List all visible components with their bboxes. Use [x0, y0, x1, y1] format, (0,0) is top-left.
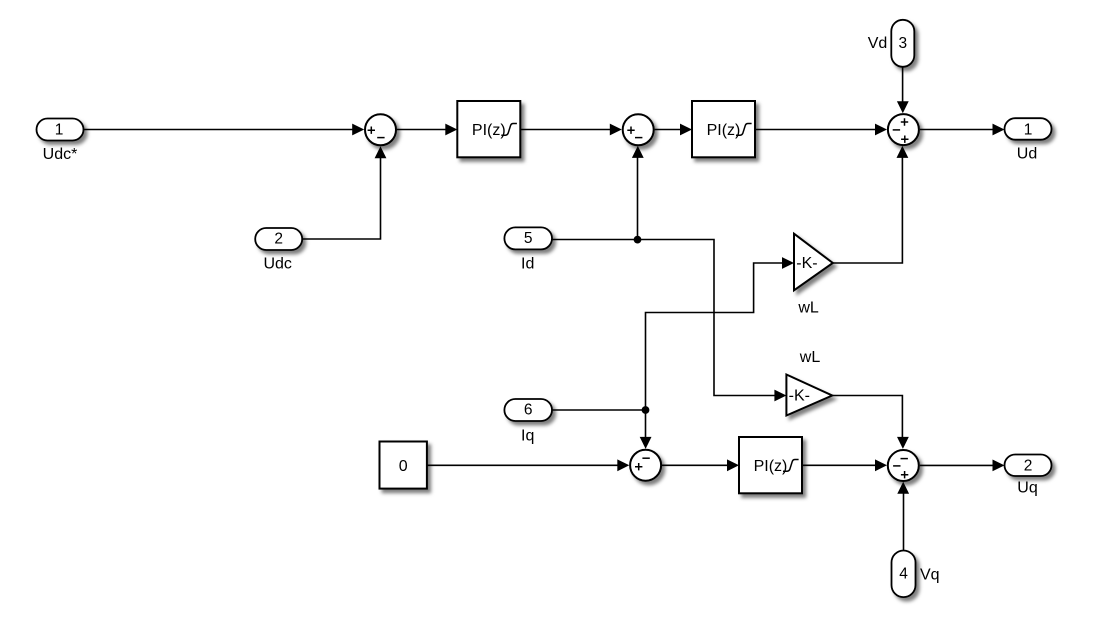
- wire Vd to sum3: [897, 67, 909, 113]
- svg-text:wL: wL: [797, 300, 819, 317]
- inport 4 (Vq): [892, 551, 940, 598]
- PI controller PI2: [692, 101, 755, 157]
- PI controller PI1: [457, 101, 520, 157]
- svg-text:6: 6: [524, 402, 533, 419]
- svg-text:0: 0: [399, 458, 408, 475]
- junction dot Id: [634, 236, 642, 244]
- sum junction S4: [630, 450, 661, 481]
- wire constant to sum4: [427, 459, 629, 471]
- svg-text:PI(z): PI(z): [754, 458, 788, 475]
- wire Id main to gain2: [552, 240, 786, 402]
- wire port2 to sum1: [303, 146, 387, 239]
- PI controller PI3: [739, 437, 802, 493]
- wire sum4 to PI3: [661, 459, 739, 471]
- wire Vq to sum5: [897, 482, 909, 551]
- wire PI2 to sum3: [755, 124, 887, 136]
- svg-text:wL: wL: [799, 349, 821, 366]
- sum junction S3: [888, 114, 919, 145]
- outport 1 (Ud): [1005, 118, 1052, 162]
- wire sum1 to PI1: [397, 124, 457, 136]
- inport 5 (Id): [504, 227, 552, 272]
- wire PI1 to sum2: [520, 124, 622, 136]
- svg-text:2: 2: [1024, 458, 1033, 475]
- inport 1 (Udc*): [37, 119, 84, 163]
- svg-text:PI(z): PI(z): [707, 122, 741, 139]
- svg-text:Ud: Ud: [1017, 146, 1037, 163]
- wire gain1 to sum3: [833, 146, 909, 263]
- svg-text:4: 4: [899, 566, 908, 583]
- junction dot Iq: [642, 406, 650, 414]
- gain G2 (wL lower): [786, 349, 832, 416]
- svg-text:Id: Id: [521, 256, 534, 273]
- svg-text:Vq: Vq: [920, 567, 940, 584]
- gain G1 (wL upper): [794, 234, 833, 317]
- wire sum3 to outport 1: [920, 124, 1005, 136]
- svg-text:1: 1: [55, 121, 64, 138]
- wire Iq branch to gain1: [646, 257, 795, 410]
- sum junction S2: [623, 114, 654, 145]
- wire gain2 to sum5: [832, 396, 909, 449]
- svg-text:Udc*: Udc*: [43, 146, 78, 163]
- svg-text:5: 5: [524, 230, 533, 247]
- svg-text:Udc: Udc: [263, 255, 291, 272]
- svg-text:Uq: Uq: [1017, 480, 1037, 497]
- wire sum2 to PI2: [655, 124, 692, 136]
- svg-text:1: 1: [1024, 121, 1033, 138]
- svg-text:PI(z): PI(z): [472, 122, 506, 139]
- inport 2 (Udc): [255, 228, 302, 272]
- outport 2 (Uq): [1005, 455, 1052, 497]
- wire sum5 to outport 2: [920, 460, 1005, 472]
- svg-text:-K-: -K-: [796, 255, 817, 272]
- sum junction S5: [888, 450, 919, 481]
- svg-text:3: 3: [898, 35, 907, 52]
- wire Iq main to sum4: [552, 410, 651, 449]
- inport 6 (Iq): [504, 399, 552, 444]
- wire Id branch to sum2: [632, 146, 644, 240]
- constant 0: [380, 442, 427, 489]
- svg-text:Iq: Iq: [521, 427, 534, 444]
- sum junction S1: [365, 114, 396, 145]
- wire port1 to sum1: [84, 124, 364, 136]
- wire PI3 to sum5: [802, 459, 887, 471]
- inport 3 (Vd): [868, 20, 915, 67]
- svg-text:Vd: Vd: [868, 35, 888, 52]
- svg-text:2: 2: [274, 231, 283, 248]
- svg-text:-K-: -K-: [789, 388, 810, 405]
